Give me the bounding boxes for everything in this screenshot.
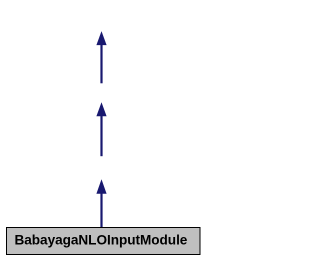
svg-text:BabayagaNLOInputModule: BabayagaNLOInputModule bbox=[15, 232, 188, 247]
inheritance arrow 3 (bottom) bbox=[96, 179, 106, 228]
inheritance arrow 1 (top) bbox=[96, 31, 106, 83]
class node box BabayagaNLOInputModule bbox=[7, 228, 201, 255]
inheritance arrow 2 (middle) bbox=[96, 102, 106, 156]
